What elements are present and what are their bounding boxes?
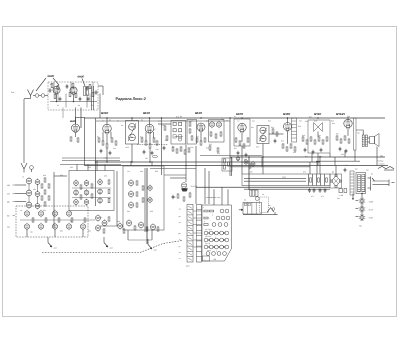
coil box A winding L23	[84, 200, 89, 205]
capacitor C22	[163, 147, 166, 149]
svg-text:6К4П: 6К4П	[195, 111, 203, 115]
wire osc drop 2	[54, 229, 56, 237]
resistor R22	[189, 129, 191, 133]
wire V10 bottom drop 1	[344, 150, 346, 157]
wire HT feed horizontal	[316, 160, 360, 162]
resistor R103	[164, 126, 166, 130]
diode D2	[179, 122, 182, 125]
resistor R48	[294, 147, 296, 151]
switch contact S7d	[223, 252, 227, 256]
mains filter long enclosure	[242, 174, 330, 186]
resistor R73	[71, 218, 73, 222]
wire mid band drop	[161, 118, 163, 175]
wire lower stage column bottom edge	[100, 225, 117, 227]
capacitor C3b trimmer	[86, 87, 89, 89]
ratio detector block enclosure	[171, 121, 186, 145]
pickup head circle	[255, 197, 259, 201]
coil box C winding L31	[128, 202, 133, 207]
svg-text:св: св	[179, 222, 181, 224]
switch contact S3c	[224, 223, 228, 227]
coil L34	[126, 220, 131, 225]
coil box A winding L19	[74, 190, 79, 195]
wire UKV inner vertical b	[70, 82, 72, 94]
resistor R42	[243, 144, 245, 148]
connector Ш2 rung 2	[187, 214, 193, 216]
wire V8 pins	[287, 131, 289, 144]
wire V8 top stub	[287, 118, 289, 123]
resistor R15	[115, 141, 117, 145]
resistor R83	[136, 192, 138, 196]
tube V1 6Н3П triode	[53, 86, 60, 93]
capacitor C8	[237, 152, 240, 154]
junction dot 18	[95, 161, 96, 162]
indicator feed wire upper	[150, 168, 196, 170]
diode D6	[179, 135, 182, 138]
capacitor C4	[100, 150, 103, 152]
svg-text:зв: зв	[179, 209, 181, 211]
coil L37	[96, 216, 101, 221]
junction dot 6	[287, 117, 288, 118]
resistor R87	[134, 226, 136, 230]
wire UKV output top	[98, 85, 103, 87]
switch link S6 seg3	[218, 246, 219, 247]
bridge diode square top	[335, 175, 337, 177]
coil L40	[244, 160, 248, 164]
junction dot 3	[149, 117, 150, 118]
motor block enclosure	[243, 202, 261, 214]
resistor R50	[306, 140, 308, 144]
resistor R17	[145, 141, 147, 145]
wire horizontal feed bus 2	[62, 160, 120, 162]
svg-text:укв: укв	[178, 233, 181, 235]
resistor R74	[84, 218, 86, 222]
connector strip Ш3 outline	[197, 205, 202, 263]
switch link S5 seg4	[224, 239, 225, 240]
svg-text:~220: ~220	[368, 200, 374, 203]
resistor R33	[215, 134, 217, 138]
svg-text:ТНЧ ВЧ: ТНЧ ВЧ	[191, 185, 198, 188]
switch contact S3b	[218, 223, 222, 227]
wire V9 bottom drop 2	[317, 153, 319, 166]
coil box C trimmer L32	[148, 186, 152, 190]
mains plug lead-in	[372, 178, 375, 181]
switch contact S2a	[216, 216, 220, 220]
wire horizontal feed bus 1	[62, 157, 120, 159]
svg-text:кШ2: кШ2	[154, 249, 157, 252]
wire СВ lead	[15, 193, 26, 195]
wire UKV inner vertical a	[53, 82, 55, 94]
antenna jack socket	[35, 94, 39, 98]
resistor R59	[348, 139, 350, 143]
resistor R47	[290, 144, 292, 148]
wire drop into block b	[221, 187, 223, 205]
junction dot 17	[229, 117, 230, 118]
motor divider 1	[247, 202, 249, 214]
switch contact S5a	[204, 238, 208, 242]
connector Ш2 rung 10	[187, 256, 193, 258]
wire ladder-to-block link row4	[193, 232, 202, 234]
wire drop into block c	[227, 189, 229, 205]
fuse-style oval FU	[153, 155, 158, 158]
junction dot 7	[317, 117, 318, 118]
wire ДВ lead	[15, 201, 26, 203]
resistor R92	[177, 194, 179, 198]
coil box A winding L20	[74, 200, 79, 205]
resistor R21	[189, 122, 191, 126]
capacitor C16	[313, 189, 316, 191]
svg-text:кШ2: кШ2	[54, 247, 57, 250]
wire V10 pins	[347, 128, 349, 136]
resistor R35	[209, 146, 211, 150]
wire UKV inner vertical c	[92, 82, 94, 93]
junction dot 10	[106, 161, 107, 162]
UKV FM tuner unit dashed enclosure	[48, 82, 98, 110]
wire V1 pins	[56, 94, 58, 102]
resistor R1	[51, 83, 53, 87]
connector Ш2 contact tick 1	[188, 206, 192, 208]
wire vertical link x128 bottom	[127, 230, 129, 240]
connector Ш3 rung 7	[197, 240, 202, 242]
resistor R10	[77, 138, 79, 142]
IF transformer T2	[257, 126, 269, 144]
motor divider 3	[255, 202, 257, 214]
diode D4	[179, 129, 182, 132]
junction dot 8	[347, 117, 348, 118]
svg-text:пр: пр	[179, 246, 181, 248]
resistor R31	[204, 138, 206, 142]
resistor R72	[58, 218, 60, 222]
wire vertical drop x262	[261, 157, 263, 167]
svg-text:напряжение сети: напряжение сети	[206, 197, 220, 199]
switch contact S5b	[209, 238, 213, 242]
wire anode supply pair B	[244, 188, 330, 190]
stage V7 enclosure	[234, 119, 250, 146]
capacitor C11	[312, 151, 315, 153]
resistor R37	[224, 159, 226, 163]
wire V6 pins	[200, 131, 202, 141]
junction dot 9	[131, 161, 132, 162]
wire box A internal bus	[72, 187, 111, 189]
tube V2 6Н3П triode	[70, 87, 77, 94]
lamp tap dash 2	[356, 208, 359, 210]
switch link S5 seg1	[208, 239, 209, 240]
junction dot UKV a	[56, 101, 57, 102]
wire vertical link x209	[208, 171, 210, 204]
resistor R39	[224, 165, 226, 169]
tube V6 6К4П IF pentode	[197, 123, 205, 131]
wire partial bus detector row	[200, 155, 262, 157]
motor feed arrow	[239, 209, 243, 211]
connector Ш3 rung 9	[197, 250, 202, 252]
resistor R75	[80, 185, 82, 189]
connector Ш2 rung 6	[187, 235, 193, 237]
filter divider 1	[308, 174, 310, 186]
coil box C winding L30	[128, 191, 133, 196]
indicator target (filled trapezoid)	[182, 189, 188, 192]
wire T2 drop to filter box	[262, 157, 264, 174]
connector Ш2 rung 5	[187, 230, 193, 232]
switch contact S6a	[204, 245, 208, 249]
wire detector drop extension	[229, 168, 231, 176]
tube V7 6Х2П double diode	[238, 123, 246, 131]
wire heavy center drop	[146, 168, 148, 244]
bridge diode square left	[330, 180, 332, 182]
resistor R3	[57, 85, 59, 89]
capacitor C6	[143, 151, 146, 153]
resistor R94	[189, 193, 191, 197]
wire detector out drop	[185, 145, 187, 183]
wire detector internal	[175, 136, 184, 138]
svg-text:~110: ~110	[368, 216, 374, 219]
resistor R18	[149, 144, 151, 148]
coil box C winding L29	[128, 180, 133, 185]
capacitor C19 reservoir	[344, 169, 347, 171]
switch link S4 seg3	[218, 232, 219, 233]
wire Tr2 primary top	[356, 130, 363, 135]
capacitor C2	[79, 98, 82, 100]
wire UKV V1 plate drop	[65, 94, 67, 108]
svg-text:к блоку: к блоку	[377, 160, 383, 163]
resistor R23	[191, 136, 193, 140]
capacitor C21	[274, 140, 277, 142]
svg-text:а: а	[203, 207, 204, 209]
rectifier enclosure	[330, 174, 342, 188]
antenna coupling capacitor circle	[41, 94, 45, 98]
connector Ш3 rung 3	[197, 219, 202, 221]
band coil L15	[52, 224, 57, 229]
resistor R61	[318, 178, 320, 182]
wire osc drop 1	[26, 229, 28, 237]
svg-text:Ант: Ант	[11, 91, 14, 94]
connector Ш2 contact tick 7	[188, 237, 192, 239]
connector Ш3 rung 6	[197, 235, 202, 237]
band coil L17	[80, 224, 85, 229]
svg-text:6Н3П: 6Н3П	[48, 75, 55, 78]
dash mark after plug	[392, 182, 395, 184]
wire UKV tube V2 grid drop	[89, 94, 91, 102]
resistor R5	[72, 83, 74, 87]
UKV IF coil winding a	[84, 87, 86, 96]
capacitor C3a trimmer	[66, 85, 69, 87]
switch contact S5e	[225, 238, 229, 242]
wire T1 bottom	[131, 144, 133, 162]
junction dot 13	[262, 156, 263, 157]
resistor R53	[318, 137, 320, 141]
coil box A winding L26	[98, 198, 103, 203]
coil box A winding L21	[84, 181, 89, 186]
resistor R84	[136, 203, 138, 207]
wire coil column link 2	[28, 196, 30, 202]
filter divider 3	[316, 174, 318, 186]
diode D3	[173, 129, 176, 132]
wire UKV IF output	[99, 94, 101, 119]
junction dot 19	[185, 165, 186, 166]
junction dot 11	[149, 161, 150, 162]
wire detector drop	[229, 118, 231, 168]
switch link S6 seg2	[213, 246, 214, 247]
resistor R89	[157, 227, 159, 231]
wire V9 bottom drop 1	[311, 153, 313, 162]
connector Ш2 contact tick 10	[188, 253, 192, 255]
coil box A winding L25	[98, 189, 103, 194]
resistor R86	[142, 198, 144, 202]
resistor R38	[228, 162, 230, 166]
wire lamp stub with terminal	[352, 194, 354, 199]
resistor R64	[41, 196, 43, 200]
switch contact S7b	[212, 252, 216, 256]
capacitor C7 ukv	[95, 91, 98, 93]
svg-text:экран: экран	[282, 177, 286, 179]
resistor R52	[314, 140, 316, 144]
motor terminal a	[244, 203, 246, 205]
wire coil column link 4	[37, 197, 39, 204]
coil box A winding L24	[98, 180, 103, 185]
ground arrow pointer 1	[47, 237, 49, 243]
wire UKV output drop	[102, 86, 104, 95]
output transformer Tr2 primary winding	[362, 135, 364, 147]
switch contact S1b	[225, 209, 229, 213]
resistor R16	[141, 138, 143, 142]
switch contact S6b	[209, 245, 213, 249]
junction dot 16	[161, 117, 162, 118]
wire V5 pins	[145, 132, 147, 141]
resistor R96	[209, 210, 213, 212]
leader line to tube label	[36, 78, 46, 91]
capacitor C18	[324, 189, 327, 191]
mains switch lever	[370, 177, 372, 191]
wire T1 top	[131, 118, 133, 121]
pickup arm pivot	[272, 208, 275, 211]
switch link S4 seg2	[213, 232, 214, 233]
oscillator unit dashed enclosure	[16, 206, 88, 237]
switch contact S6d	[220, 245, 224, 249]
indicator feed wire	[164, 174, 186, 176]
filter divider 2	[312, 174, 314, 186]
wire V2 pins	[73, 94, 75, 101]
capacitor C9	[245, 154, 248, 156]
tube V8 6Н2П twin triode	[284, 123, 292, 131]
tube V3 6Н2П	[72, 124, 80, 132]
switch contact S2c	[226, 216, 230, 220]
wire left band drop 2	[95, 118, 97, 206]
bridge diode square right	[339, 180, 341, 182]
wire detector drop twin	[231, 157, 233, 176]
resistor R104	[166, 136, 168, 140]
resistor R12	[102, 141, 104, 145]
Тр1 secondary winding	[362, 175, 365, 192]
svg-text:стерео: стерео	[379, 162, 385, 165]
AM antenna input jack	[30, 166, 34, 170]
wire left band drop 1	[83, 117, 85, 165]
junction dot 12	[241, 161, 242, 162]
motor divider 2	[251, 202, 253, 214]
band coil L13	[24, 224, 29, 229]
wire vertical link x205	[204, 168, 206, 204]
diode D1	[173, 122, 176, 125]
trimmer coil L7	[35, 192, 40, 197]
wire bridge top	[335, 166, 337, 176]
resistor R27	[184, 150, 186, 154]
resistor R68	[48, 184, 50, 188]
resistor R88	[146, 227, 148, 231]
filter divider 5	[324, 174, 326, 186]
wire box A internal bus 2	[72, 197, 111, 199]
junction dot UKV b	[73, 101, 74, 102]
resistor R82	[136, 181, 138, 185]
resistor R51	[310, 137, 312, 141]
resistor R91	[108, 217, 110, 221]
phase splitter crossover symbol	[314, 123, 323, 132]
resistor R40	[235, 138, 237, 142]
wire V7 pins	[241, 132, 243, 142]
resistor R34	[220, 132, 222, 136]
coil box A enclosure	[69, 171, 114, 211]
switch contact S4a	[204, 231, 208, 235]
capacitor C7	[151, 152, 154, 154]
resistor R63	[41, 184, 43, 188]
wire ladder-to-block link row3	[193, 224, 202, 226]
pickup dashed enclosure	[260, 197, 269, 213]
resistor R77	[91, 184, 93, 188]
svg-text:~127: ~127	[368, 208, 374, 211]
resistor R45	[282, 144, 284, 148]
switch link S4 seg1	[208, 232, 209, 233]
wire vertical link x152 bottom	[151, 230, 153, 240]
resistor R30	[200, 141, 202, 145]
wire UKV heavy output drop	[80, 108, 82, 129]
capacitor C5	[109, 152, 112, 154]
wire UKV internal bus	[50, 101, 97, 103]
wire V5 top stub	[149, 118, 151, 124]
resistor R58	[344, 136, 346, 140]
resistor R76	[80, 195, 82, 199]
input coil L3	[26, 178, 32, 184]
leader line V1	[53, 78, 59, 85]
switch link S6 seg1	[208, 246, 209, 247]
connector Ш2 rung 8	[187, 245, 193, 247]
wire dashed-box internal bus	[20, 219, 95, 221]
switch link S6 seg4	[224, 246, 225, 247]
mains plug Ш1 end bar	[388, 180, 390, 187]
wire V4 cathode to AGC bus	[106, 149, 108, 163]
resistor R41	[239, 141, 241, 145]
IF transformer T1 (two tuned circuits)	[126, 121, 139, 145]
capacitor C20	[172, 196, 175, 198]
heater winding tap box a	[339, 189, 343, 193]
wire filter inner line 1	[244, 177, 306, 179]
oscillator coil L9	[24, 211, 29, 216]
wire coil column link 1	[28, 184, 30, 190]
coil box C enclosure	[123, 166, 164, 230]
input coil L4	[26, 190, 32, 196]
wire secondary top bus	[96, 120, 230, 122]
resistor R9	[70, 137, 72, 141]
wire anode supply pair A	[196, 186, 330, 188]
resistor R97	[204, 217, 208, 219]
circle detector elem	[178, 138, 181, 141]
dial lamp Л15	[360, 216, 364, 220]
coil L42	[236, 157, 240, 161]
resistor R43	[247, 138, 249, 142]
ground arrow pointer 3	[147, 239, 149, 245]
connector Ш3 rung 2	[197, 214, 202, 216]
wire vertical drop x335 HT	[334, 157, 336, 166]
wire Tr2 to speaker	[367, 137, 369, 139]
resistor R101	[272, 129, 274, 133]
svg-text:гр: гр	[179, 239, 181, 241]
volume potentiometer R44 (hatched)	[292, 118, 297, 142]
bridge diode square bottom	[335, 185, 337, 187]
